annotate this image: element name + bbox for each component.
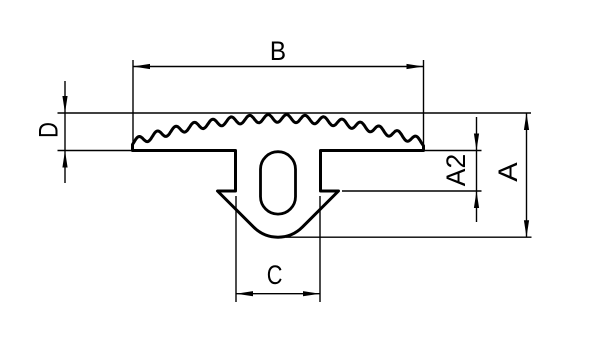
arrow D bottom bbox=[62, 151, 67, 168]
extension line profile bottom (A bottom) bbox=[286, 236, 532, 238]
dimension line B bbox=[133, 66, 424, 68]
svg-text:A: A bbox=[493, 162, 523, 182]
arrow A bottom bbox=[524, 220, 529, 237]
arrow C right bbox=[303, 291, 320, 296]
dimension line C bbox=[236, 293, 320, 295]
dimension line A2 bbox=[476, 117, 478, 222]
extension line flange bottom left bbox=[58, 150, 133, 152]
arrow A2 top bbox=[474, 134, 479, 151]
extension line barb level (A2 bottom) bbox=[342, 190, 482, 192]
arrow C left bbox=[236, 291, 253, 296]
dimension line D bbox=[64, 81, 66, 183]
svg-text:C: C bbox=[267, 260, 283, 290]
extension line B left bbox=[132, 60, 134, 147]
extension line flange bottom right (A2 top) bbox=[424, 150, 482, 152]
extension line C left bbox=[235, 196, 237, 302]
extension line C right bbox=[319, 196, 321, 302]
arrow A2 bottom bbox=[474, 191, 479, 208]
svg-text:A2: A2 bbox=[441, 154, 471, 187]
extension line B right bbox=[423, 60, 425, 148]
arrow D top bbox=[62, 96, 67, 113]
extension line top (y=113) bbox=[58, 112, 532, 114]
arrow B left bbox=[133, 64, 150, 69]
dimension line A bbox=[526, 113, 528, 237]
arrow B right bbox=[407, 64, 424, 69]
profile outline bbox=[133, 115, 424, 238]
oval hole bbox=[261, 152, 296, 214]
svg-text:B: B bbox=[270, 36, 286, 66]
svg-text:D: D bbox=[34, 122, 64, 138]
arrow A top bbox=[524, 113, 529, 130]
